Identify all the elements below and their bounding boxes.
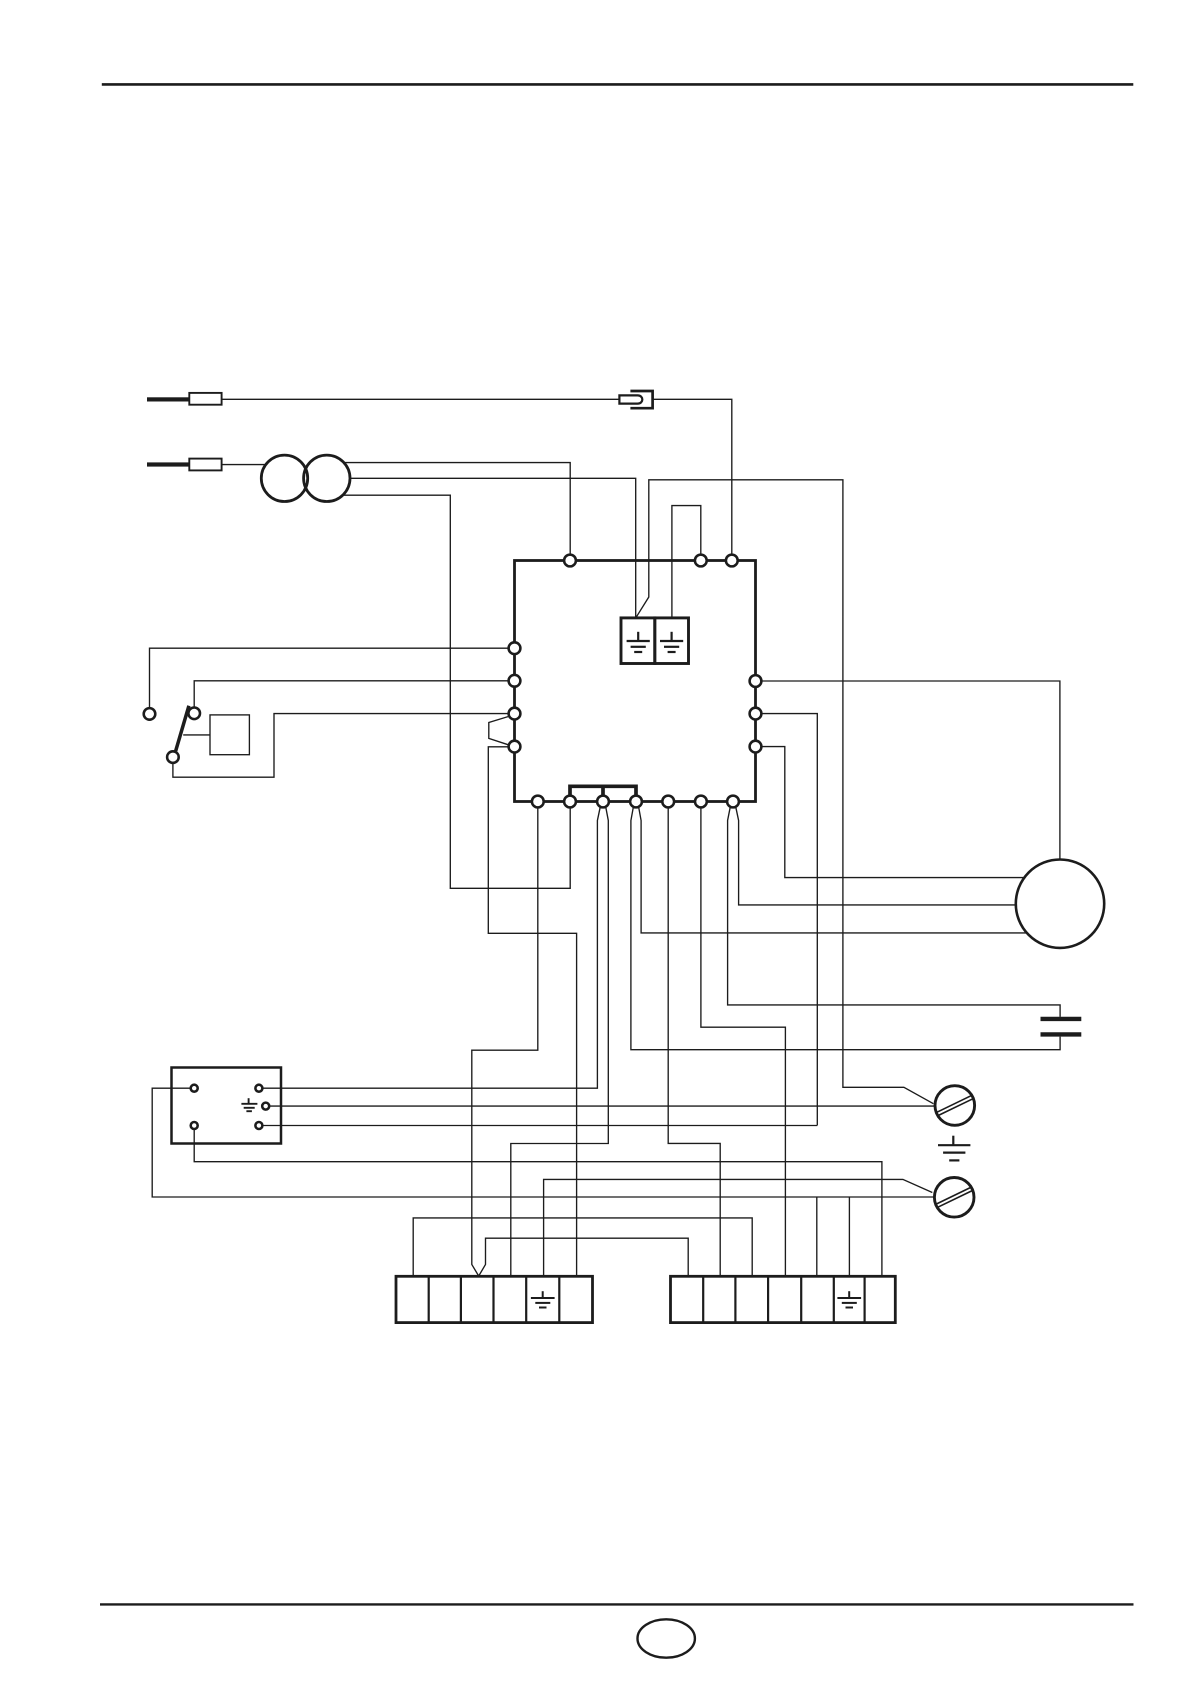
ignition transformer TR1 coil a [261,455,307,501]
earth symbol below PE1 [938,1136,970,1161]
wire Y1 bottom-left to strip X3 cell 7 [194,1129,882,1276]
cable A1-bottom-3 conductor a to Y1 top-right [263,807,601,1088]
earth symbol in box 2 [660,632,683,652]
Y1 terminal bottom-right [255,1122,262,1129]
capacitor C1 top plate [1041,1017,1082,1021]
detection electrode E1 tip [147,397,190,401]
earth terminal box 1 inside A1 [621,618,655,664]
cable A1-bottom-7 conductor a to capacitor C1 top [728,807,1061,1017]
wire strip X2 cell 1 to strip X3 cell 3 [413,1218,752,1276]
terminal A1-right-2 [750,708,762,720]
wire terminal A1-top-2 to earth box 2 [672,506,701,617]
branch PE2 net to strip X3 cell 6 [848,1197,850,1276]
earth symbol in X2 cell 5 [531,1291,555,1307]
earth symbol in box 1 [627,632,650,652]
link lever to TH1 [183,734,210,736]
wire E2 to TR1 [222,464,267,466]
jumper link on A1 bottom terminals [570,786,636,801]
terminal A1-bottom-7 [727,796,739,808]
terminal A1-bottom-6 [695,796,707,808]
terminal strip X2 body [396,1276,593,1322]
terminal A1-right-3 [750,741,762,753]
wire terminal A1-bottom-1 to strip X2 arrow plug [472,807,688,1276]
switch S1 lever [176,706,189,751]
wire terminal A1-right-1 to motor M1 top [756,681,1060,860]
footer rule [100,1603,1134,1605]
earth terminal box 2 inside A1 [655,618,689,664]
ignition electrode E2 body [189,459,221,471]
flag marker on terminals A1-left-3/4 [489,717,508,745]
wire E1 to connector X1 [222,398,620,400]
wire TR1 down via x450 to terminal A1-bottom-2 [343,495,570,888]
ignition transformer TR1 coil b [304,455,350,501]
PE1 screw slot [937,1096,973,1116]
terminal A1-left-1 [509,642,521,654]
Y1 terminal top-right [255,1085,262,1092]
ignition electrode E2 tip [147,462,190,466]
wire A1-bottom-5 to strip X3 cell 2 [668,807,720,1276]
wire earth box 1 to PE1 (via x843) [636,480,933,1104]
terminal A1-top-3 [726,555,738,567]
capacitor C1 bottom plate [1041,1032,1082,1036]
PE2 screw slot [936,1188,972,1208]
terminal A1-top-2 [695,555,707,567]
wire Y1 mid-right to PE1 [269,1105,935,1107]
gas valve unit Y1 box [172,1068,282,1144]
switch S1 fixed contact node [188,708,200,720]
Y1 terminal bottom-left [191,1122,198,1129]
terminal A1-right-1 [750,675,762,687]
page number ellipse [638,1619,695,1657]
wire Y1 top-left to PE2 [152,1088,934,1197]
connector X1 socket [630,391,652,408]
terminal strip X3 body [671,1276,896,1322]
cable A1-bottom-3 conductor b to strip X2 cell 4 [511,807,609,1277]
wire TR1 to terminal A1-top-1 [344,463,570,555]
wire terminal A1-right-2 down to Y1 net [756,714,818,1126]
X3 cell dividers [703,1276,864,1322]
Y1 terminal mid-right [262,1103,269,1110]
earth symbol in X3 cell 6 [837,1291,861,1307]
header rule [102,83,1134,86]
earth screw terminal PE2 [934,1178,974,1218]
cable A1-bottom-7 conductor b to motor M1 left [736,807,1018,905]
fan motor M1 [1016,860,1104,948]
wire strip X2 cell 5 to PE2 [544,1179,933,1276]
cable A1-bottom-4 conductor b to motor M1 lower left [639,807,1029,933]
wire terminal A1-left-3 to switch S1 pivot [173,714,515,778]
cable A1-bottom-4 conductor a to capacitor C1 bottom [631,807,1060,1050]
control unit A1 box [515,561,756,802]
terminal A1-left-2 [509,675,521,687]
wire terminal A1-left-1 to switch S1 open contact [150,648,515,708]
terminal A1-bottom-3 [597,796,609,808]
terminal A1-left-4 [509,741,521,753]
wire terminal A1-left-2 to switch S1 fixed contact [194,681,514,708]
Y1 terminal top-left [191,1085,198,1092]
terminal A1-bottom-4 [630,796,642,808]
detection electrode E1 body [189,393,221,405]
terminal A1-bottom-1 [532,796,544,808]
thermostat box TH1 [210,715,249,755]
earth screw terminal PE1 [935,1086,975,1126]
wire terminal A1-left-4 to strip X2 cell 6 [488,747,576,1277]
connector X1 plug [619,395,642,403]
X2 cell dividers [429,1276,560,1322]
wire A1-bottom-6 to strip X3 cell 4 [701,807,786,1276]
branch PE2 net to strip X3 cell 5 [816,1197,818,1276]
wire TR1 to earth box 1 [350,478,636,617]
switch S1 pivot node [167,751,179,763]
terminal A1-left-3 [509,708,521,720]
wire Y1 bottom-right to A1-right-2 net [263,1125,818,1127]
terminal A1-bottom-2 [564,796,576,808]
wire X1 to terminal A1-top-3 [653,399,732,555]
earth symbol inside Y1 [241,1098,257,1111]
switch S1 open contact node [144,708,156,720]
terminal A1-top-1 [564,555,576,567]
wire terminal A1-right-3 to motor M1 upper left [756,747,1027,878]
terminal A1-bottom-5 [662,796,674,808]
